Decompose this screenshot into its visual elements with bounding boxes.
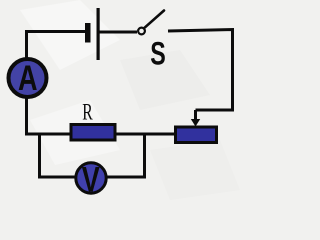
resistor R1 bbox=[71, 125, 115, 141]
wire: middle rail (ammeter to resistor to rheostat) bbox=[25, 133, 174, 136]
svg-text:R: R bbox=[82, 100, 93, 125]
wire: battery positive to switch bbox=[100, 31, 138, 34]
svg-text:V: V bbox=[82, 160, 100, 199]
battery B1 positive plate (long thin) bbox=[97, 8, 100, 60]
voltmeter V1 bbox=[76, 160, 106, 199]
wire: switch to top-right corner bbox=[168, 30, 233, 111]
rheostat RP1 bbox=[176, 127, 217, 143]
wire: ammeter bottom down to middle rail bbox=[25, 97, 28, 134]
node: voltmeter left tap junction bbox=[40, 134, 76, 177]
svg-text:A: A bbox=[18, 58, 38, 98]
svg-text:S: S bbox=[150, 36, 166, 72]
node: voltmeter right tap junction bbox=[107, 134, 145, 177]
battery B1 negative plate (short thick) bbox=[85, 23, 91, 43]
switch S hinge circle bbox=[138, 28, 145, 35]
wire: ammeter top to battery negative bbox=[27, 32, 87, 60]
wire: rheostat wiper arrow stem bbox=[194, 110, 197, 120]
rheostat wiper arrowhead bbox=[191, 119, 200, 127]
ammeter A1 bbox=[9, 58, 47, 98]
switch S blade (open) bbox=[145, 11, 164, 28]
